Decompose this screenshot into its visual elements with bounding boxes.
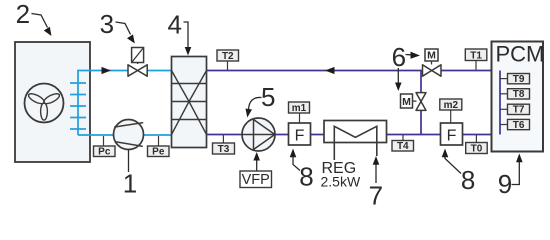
label 9 leader [498,154,523,200]
motorized valve V6 [423,49,442,76]
label 2 leader [16,0,52,36]
svg-text:T1: T1 [470,50,482,61]
pump P5 [242,118,275,151]
svg-text:PCM: PCM [496,42,545,67]
flow meter F1 [289,123,311,145]
svg-text:1: 1 [123,169,137,199]
svg-text:T6: T6 [513,120,525,131]
sensor T3 [213,135,235,155]
flow meter F2 [441,123,463,145]
wire: PCM internal manifold [499,71,501,135]
label 4 leader [167,9,191,55]
svg-text:2.5kW: 2.5kW [321,174,361,190]
svg-text:T7: T7 [513,105,525,116]
evaporator coil ticks [70,83,86,129]
svg-text:T3: T3 [218,144,230,155]
flow arrow on top purple line (pointing left) [325,67,335,74]
fan coil unit box (evaporator cabinet) [15,42,90,162]
svg-text:T2: T2 [222,51,234,62]
compressor Q1 [114,120,144,150]
expansion valve V3 [128,48,147,77]
sensor Pe [148,136,170,158]
plate heat exchanger U4 [172,57,207,148]
svg-text:3: 3 [100,9,114,39]
svg-text:m2: m2 [444,100,459,111]
fan [25,84,64,123]
sensor T1 [465,49,487,70]
sensor Pc [94,136,116,158]
svg-text:F: F [447,128,457,145]
svg-text:Pc: Pc [98,147,111,158]
svg-text:Pe: Pe [152,147,165,158]
sensor m1 [289,102,310,123]
electric heater REG [324,121,387,161]
svg-text:2: 2 [16,0,30,29]
svg-text:4: 4 [167,9,181,39]
svg-text:9: 9 [498,169,512,199]
label REG 2.5kW [321,160,361,190]
wire: water top line (purple) HX to PCM [207,70,501,72]
svg-text:F: F [295,128,305,145]
label 6 leaders [392,42,420,91]
svg-text:7: 7 [369,181,383,208]
sensor T2 [217,50,239,70]
label 5 leader [246,82,276,118]
node T6 stub [500,119,530,130]
flow arrow on top cyan line [102,67,112,74]
label 8 (m2) leader [442,149,476,196]
svg-text:T9: T9 [513,74,525,85]
label 7 leader [369,156,383,211]
label 1 leader [123,150,137,199]
wire: refrigerant bottom line (cyan) evaporator to compressor to HX [78,134,172,136]
svg-text:6: 6 [392,42,406,72]
arrow VFP to pump [253,152,260,171]
svg-text:5: 5 [261,82,275,112]
node T7 stub [500,104,530,116]
wire: refrigerant top line (cyan) evaporator to valve to HX [78,71,172,136]
svg-text:M: M [427,50,436,62]
PCM storage tank [492,42,545,152]
label 3 leader [100,9,135,43]
svg-text:VFP: VFP [242,172,270,188]
svg-text:m1: m1 [292,103,307,114]
node T9 stub [500,74,530,86]
svg-text:M: M [402,96,411,108]
sensor T4 [392,135,414,152]
svg-text:T4: T4 [397,141,409,152]
node T8 stub [500,89,530,101]
wire: bypass vertical line [420,71,422,135]
label 8 (m1) leader [290,149,314,192]
svg-text:T0: T0 [471,143,483,154]
VFP box [240,171,272,188]
sensor T0 [466,135,488,154]
svg-text:8: 8 [461,165,475,195]
svg-text:8: 8 [299,162,313,192]
svg-text:T8: T8 [513,89,525,100]
bypass motorized valve [401,93,427,111]
sensor m2 [440,99,462,123]
wire: water bottom line (purple) HX to PCM [207,134,501,136]
